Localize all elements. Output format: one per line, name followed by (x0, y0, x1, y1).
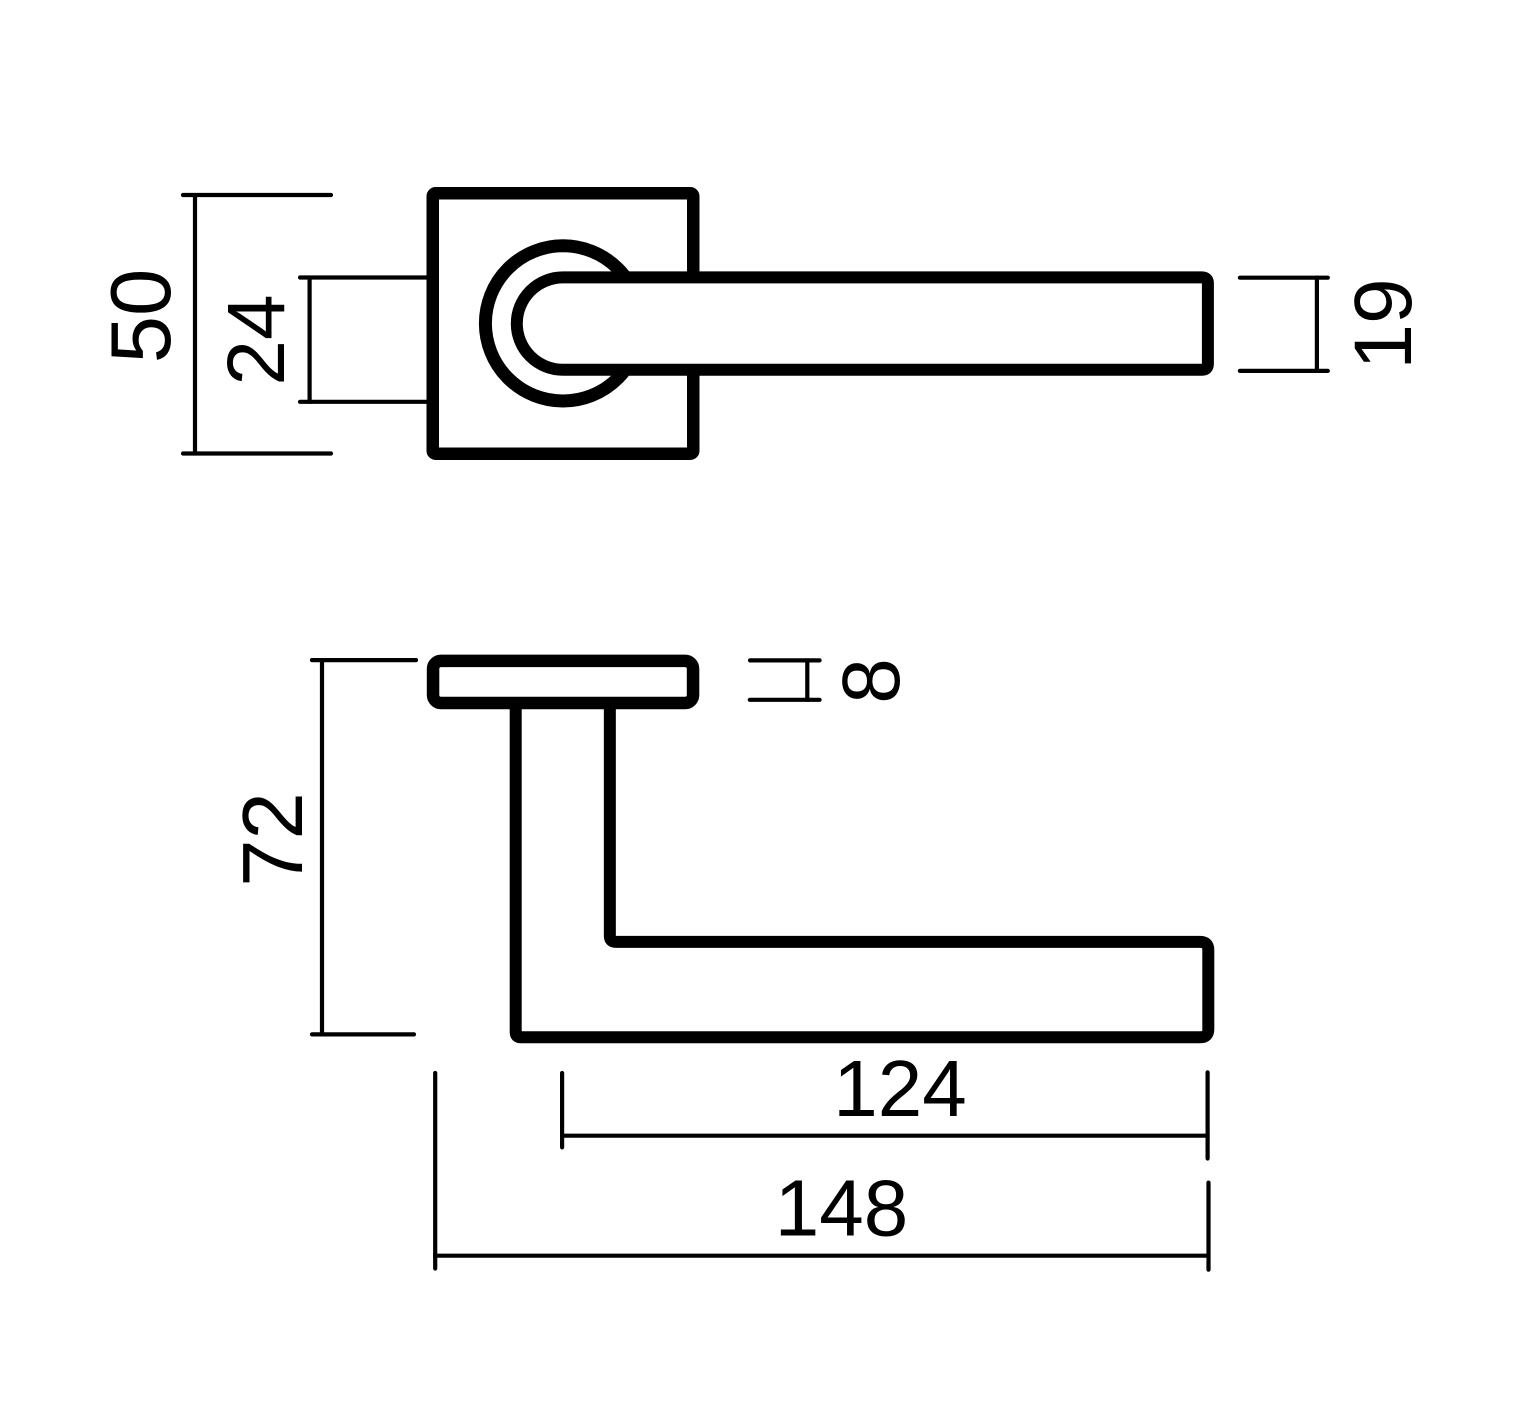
dim 8 dimension line (805, 658, 809, 701)
square rosette (front view) (433, 193, 694, 454)
dim 19 dimension line (1315, 276, 1319, 373)
dim 19 extension line top (1240, 276, 1328, 280)
svg-text:8: 8 (826, 658, 917, 704)
svg-text:24: 24 (211, 294, 302, 385)
dim 148 extension line right (1206, 1183, 1210, 1270)
dim 148 dimension line (433, 1254, 1211, 1258)
dim 124 extension line left (560, 1073, 564, 1147)
dim 124 dimension line (560, 1134, 1210, 1138)
dim 72 extension line bottom (312, 1032, 414, 1036)
svg-text:72: 72 (226, 792, 321, 887)
dim 148 extension line left (433, 1073, 437, 1269)
dim 72 dimension line (320, 658, 324, 1036)
svg-text:148: 148 (775, 1164, 908, 1253)
handle profile (side view) (516, 700, 1209, 1037)
rosette plate (side view) (433, 661, 693, 703)
dim 72 extension line top (312, 658, 416, 662)
dim 19 extension line bottom (1240, 369, 1328, 373)
dim 24 extension line bottom (300, 400, 427, 404)
dim 50 extension line top (183, 193, 331, 197)
svg-text:19: 19 (1338, 278, 1429, 369)
dim 50 extension line bottom (183, 451, 331, 455)
dim 24 dimension line (308, 276, 312, 404)
svg-text:124: 124 (833, 1044, 966, 1133)
lever grip bar (front view) (517, 277, 1208, 369)
dim 24 extension line top (300, 275, 427, 279)
svg-text:50: 50 (94, 269, 189, 364)
dim 8 extension line top (750, 658, 820, 662)
dim 50 dimension line (193, 193, 197, 456)
dim 124 extension line right (1205, 1072, 1209, 1158)
dim 8 extension line bottom (750, 698, 820, 702)
collar ring (485, 246, 640, 401)
